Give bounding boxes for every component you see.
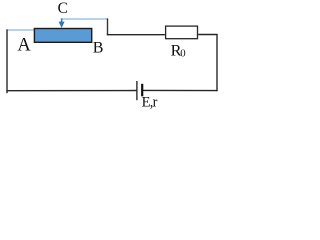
battery right plate (short thick) — [141, 84, 143, 97]
wire: vertical drop from slider wire — [107, 18, 109, 35]
wire: slider tap (blue) from C arrow to top-right corner — [62, 18, 108, 20]
wire: left lead from A terminal (blue) — [7, 29, 35, 31]
wire: left vertical side — [6, 29, 8, 93]
slider wiper arrow C — [61, 18, 63, 22]
svg-text:B: B — [93, 40, 104, 57]
wire: right vertical side — [216, 34, 218, 91]
svg-text:C: C — [58, 0, 68, 17]
wire: bottom left to battery — [6, 90, 136, 92]
wire: horizontal to R0 — [107, 34, 165, 36]
svg-text:A: A — [17, 36, 31, 56]
svg-text:0: 0 — [180, 48, 185, 60]
resistor R0 (box) — [166, 26, 198, 39]
svg-text:E,r: E,r — [142, 94, 158, 110]
wire: R0 to right corner — [198, 34, 217, 36]
wire: bottom battery to right corner — [143, 89, 218, 91]
rheostat track A-B (blue filled box) — [34, 29, 91, 43]
battery left plate (long) — [136, 81, 138, 100]
